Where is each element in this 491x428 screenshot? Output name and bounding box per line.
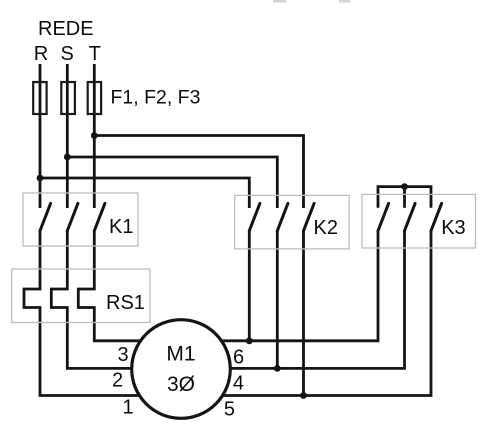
wire K3 star-point bridge xyxy=(378,187,431,208)
wire bus tap R to K2 left contact xyxy=(40,178,249,208)
contactor K3 blade 2 xyxy=(405,203,416,230)
svg-text:K3: K3 xyxy=(441,217,465,239)
svg-text:3Ø: 3Ø xyxy=(167,373,195,396)
node: T tap junction xyxy=(91,132,98,139)
svg-text:K1: K1 xyxy=(109,216,133,238)
node: junction K2 to terminal 6 xyxy=(246,337,253,344)
node: S tap junction xyxy=(64,154,71,161)
wire K2 left contact bottom to line 6 xyxy=(248,231,251,341)
svg-text:6: 6 xyxy=(233,346,244,368)
contactor K2 blade 2 xyxy=(277,203,288,230)
svg-text:R: R xyxy=(34,43,48,65)
wire bus tap T to K2 right contact xyxy=(94,136,303,209)
svg-text:2: 2 xyxy=(112,369,123,391)
wire phase T vertical (top section through fuse F3 down to K1) xyxy=(93,64,96,208)
motor M1 circle xyxy=(132,320,231,419)
svg-text:1: 1 xyxy=(122,396,133,418)
wire phase S vertical (top section through fuse F2 down to K1) xyxy=(66,64,69,208)
svg-text:5: 5 xyxy=(224,398,235,420)
contactor K2 box xyxy=(235,195,349,249)
node: junction K2 to terminal 4 xyxy=(274,365,281,372)
wire bus tap S to K2 middle contact xyxy=(67,157,277,208)
cropped text remnant top edge left xyxy=(273,0,286,3)
node: R tap junction xyxy=(37,175,44,182)
wire phase T: K1 bottom through RS1 element to motor line 3/6 up to K3 left contact xyxy=(78,231,378,341)
svg-text:F1, F2, F3: F1, F2, F3 xyxy=(111,87,201,109)
wire K2 right contact bottom to line 5 xyxy=(302,231,305,396)
svg-text:4: 4 xyxy=(233,372,244,394)
svg-text:3: 3 xyxy=(117,344,128,366)
contactor K3 box xyxy=(362,194,476,248)
wire phase R vertical (top section through fuse F1 down to K1) xyxy=(39,64,42,208)
svg-text:K2: K2 xyxy=(314,217,338,239)
fuse F2 xyxy=(61,82,75,114)
contactor K2 blade 3 xyxy=(304,203,315,230)
node: junction K2 to terminal 5 xyxy=(300,392,307,399)
svg-text:REDE: REDE xyxy=(38,18,94,40)
cropped text remnant top edge right xyxy=(339,0,350,3)
contactor K1 blade 1 xyxy=(40,203,51,230)
svg-text:T: T xyxy=(89,43,101,65)
contactor K2 blade 1 xyxy=(249,203,260,230)
overload relay RS1 box xyxy=(12,269,150,323)
contactor K3 blade 3 xyxy=(431,203,442,230)
wire phase R: K1 bottom through RS1 element to motor line 1/5 up to K3 right contact xyxy=(24,231,431,396)
svg-text:RS1: RS1 xyxy=(106,292,145,314)
svg-text:M1: M1 xyxy=(166,343,195,366)
contactor K3 blade 1 xyxy=(378,203,389,230)
wire K3 middle contact top stub xyxy=(403,187,406,208)
fuse F1 xyxy=(33,82,46,114)
contactor K1 blade 3 xyxy=(94,203,105,230)
wire phase S: K1 bottom through RS1 element to motor line 2/4 up to K3 middle contact xyxy=(51,231,404,369)
svg-text:S: S xyxy=(61,43,74,65)
wire K2 middle contact bottom to line 4 xyxy=(276,231,279,369)
contactor K1 box xyxy=(23,193,138,246)
fuse F3 xyxy=(88,82,101,114)
node: K3 star point junction xyxy=(401,183,408,190)
contactor K1 blade 2 xyxy=(67,203,78,230)
